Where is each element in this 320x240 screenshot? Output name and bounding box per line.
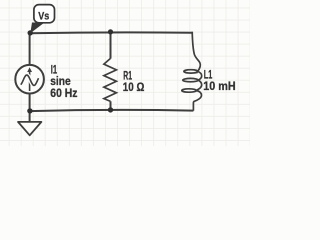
svg-text:10 mH: 10 mH <box>203 81 235 93</box>
junction node at resistor top <box>108 29 113 34</box>
svg-text:sine: sine <box>50 76 70 88</box>
resistor R1 <box>104 58 117 101</box>
junction node at source top <box>28 30 33 35</box>
wire: source top stub <box>29 32 31 66</box>
svg-text:L1: L1 <box>204 70 213 82</box>
svg-text:10 Ω: 10 Ω <box>123 82 145 94</box>
net label Vs <box>30 5 54 34</box>
wire: resistor bottom stub <box>110 101 112 110</box>
junction node at resistor bottom <box>108 107 113 112</box>
wire: bottom rail <box>30 110 194 111</box>
svg-text:Vs: Vs <box>38 10 49 22</box>
inductor L1 coil <box>182 32 202 111</box>
svg-text:I1: I1 <box>51 64 58 76</box>
ground <box>18 122 41 135</box>
svg-text:R1: R1 <box>123 71 132 83</box>
wire: source bottom stub <box>29 93 31 112</box>
svg-text:60 Hz: 60 Hz <box>50 88 77 100</box>
current source I1 <box>15 65 44 94</box>
junction node at source bottom <box>27 108 32 113</box>
wire: resistor top stub <box>110 32 112 58</box>
wire: ground stem <box>29 111 31 122</box>
wire: top rail from source to inductor <box>30 31 193 34</box>
